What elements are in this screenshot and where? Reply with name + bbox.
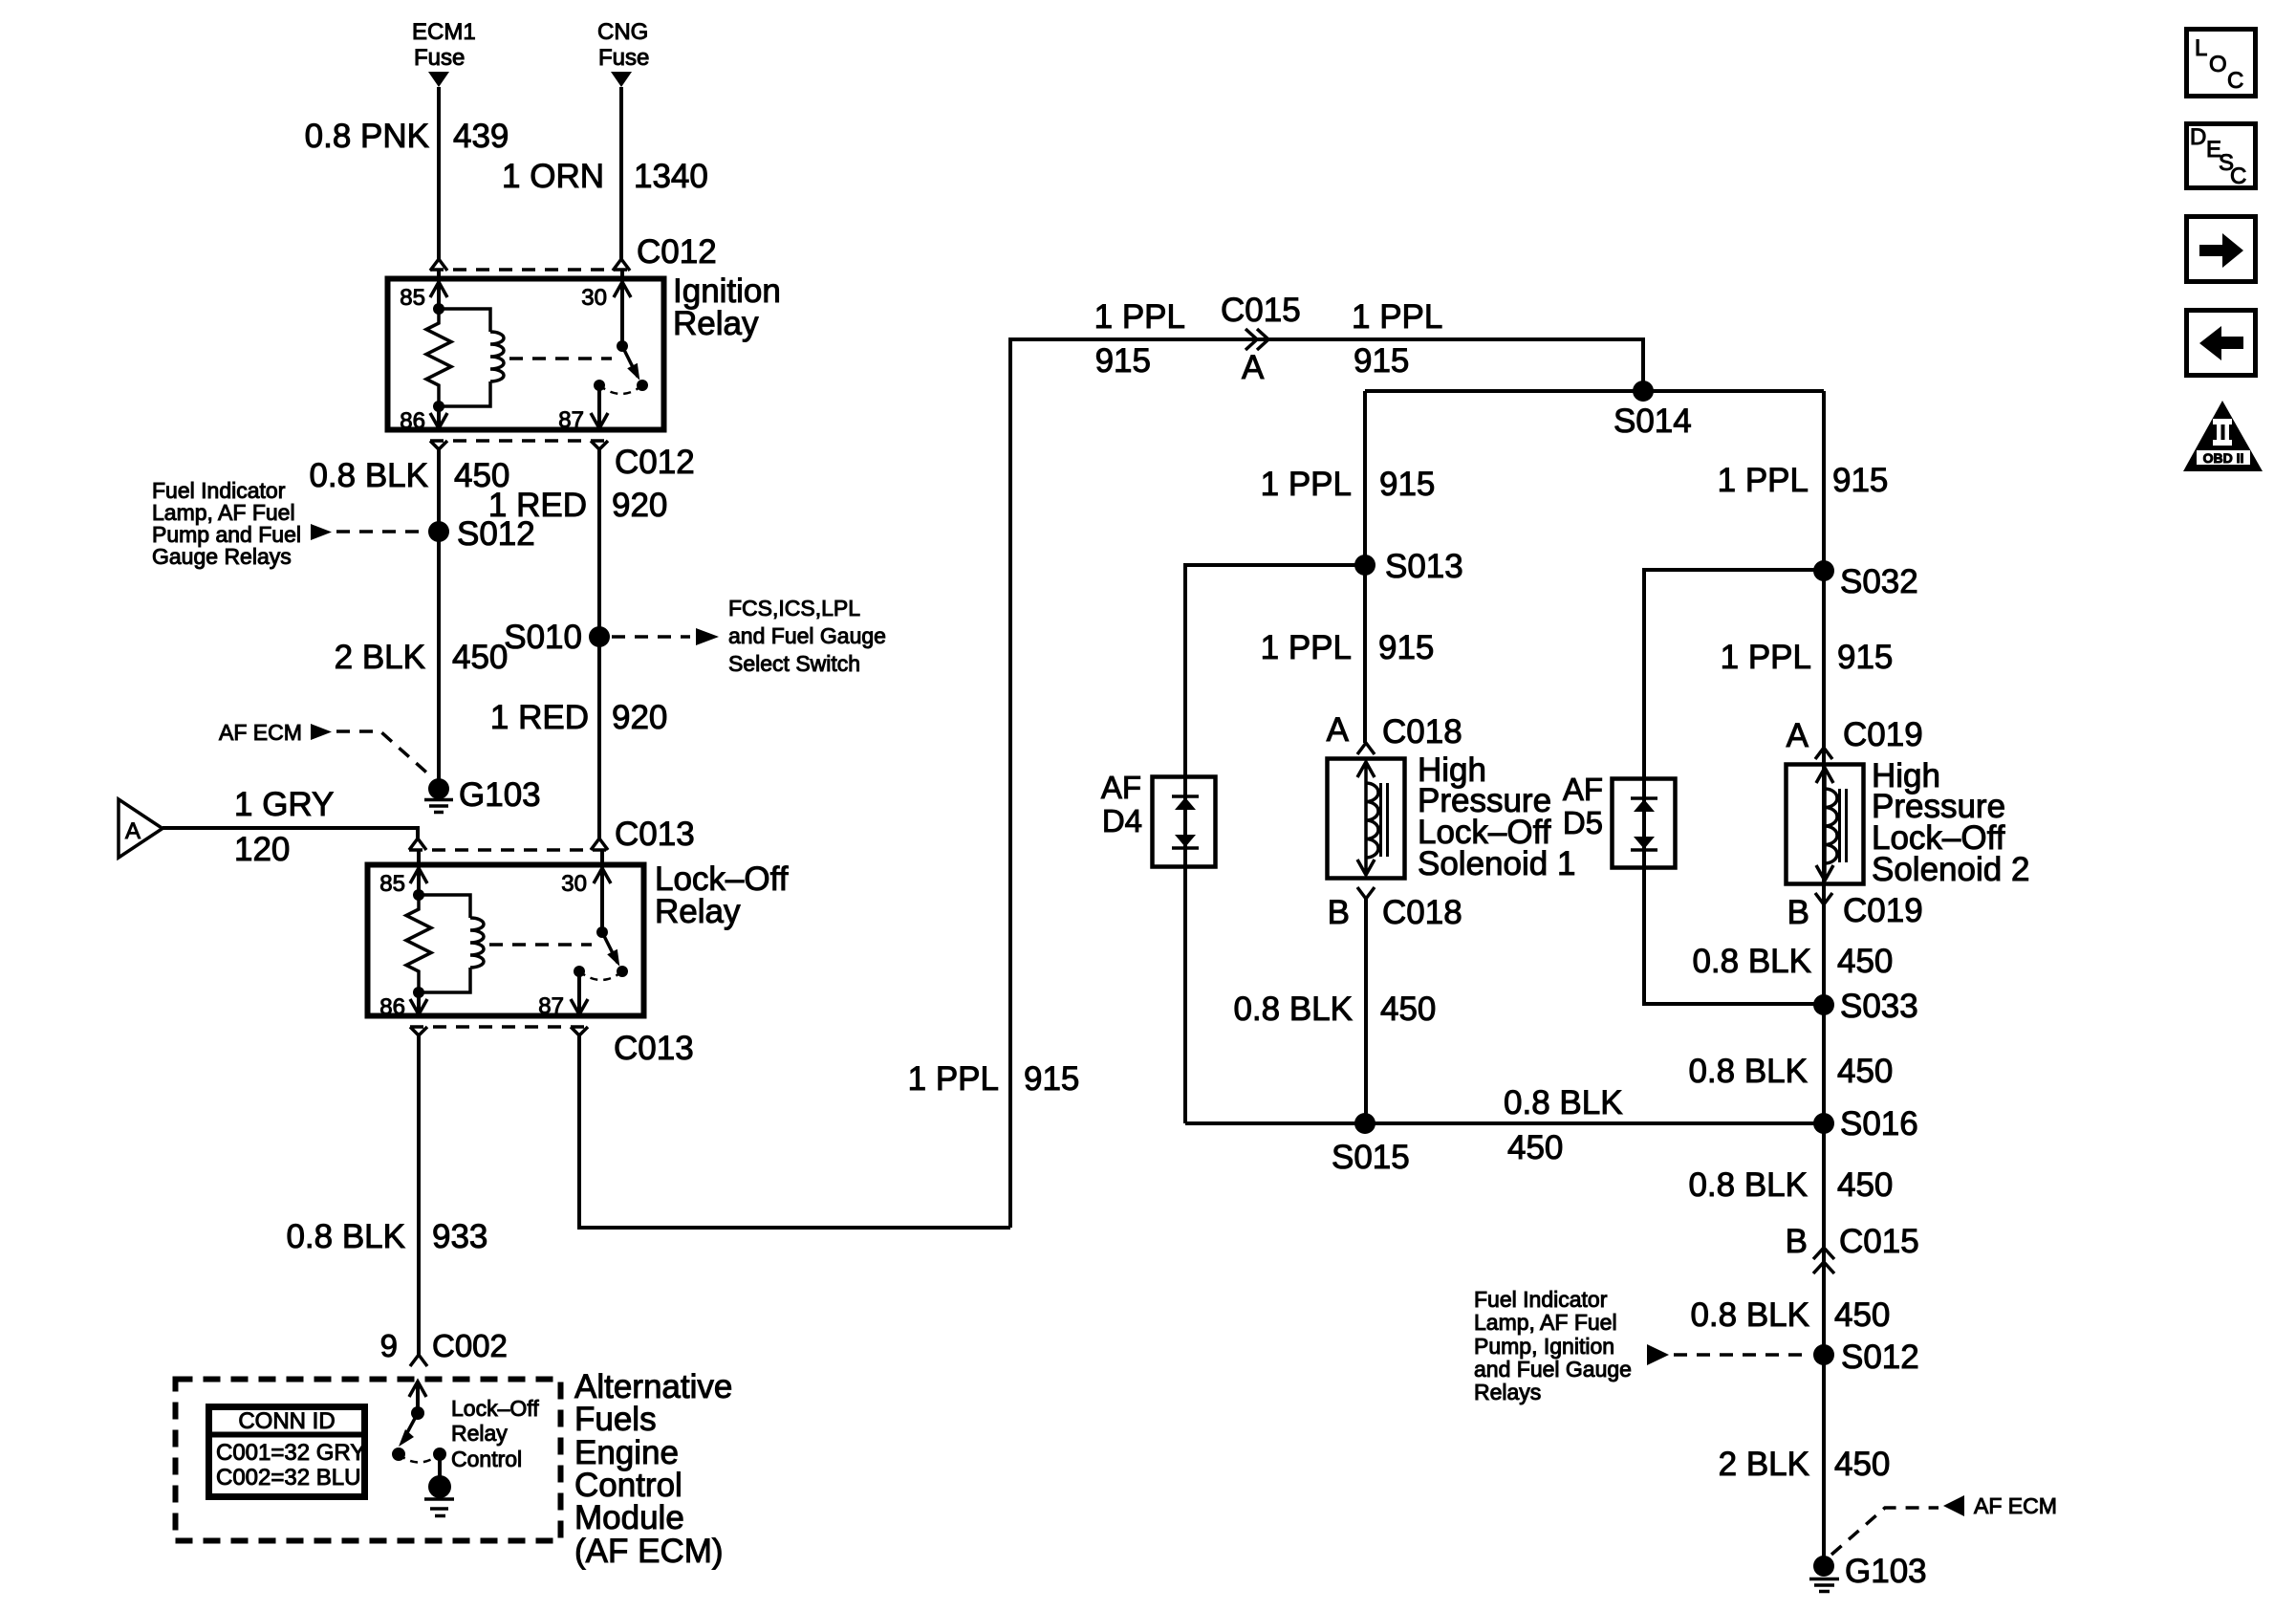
svg-text:Solenoid 2: Solenoid 2	[1872, 851, 2029, 888]
ground G103 right	[1813, 1556, 1834, 1577]
svg-text:915: 915	[1095, 342, 1151, 380]
svg-text:CONN ID: CONN ID	[238, 1408, 335, 1434]
svg-text:1 PPL: 1 PPL	[1352, 298, 1442, 336]
svg-text:AF: AF	[1563, 772, 1603, 807]
connector C015 pin B inline chevrons	[1813, 1248, 1834, 1274]
arrow to S012	[311, 524, 332, 540]
dashed wire G103 to AF ECM	[1831, 1508, 1939, 1555]
solenoid 1 coil	[1366, 783, 1378, 858]
node S012 splice	[428, 521, 449, 542]
switch throw dashed arc	[579, 971, 622, 980]
fuse CNG terminal triangle	[611, 72, 632, 87]
annotation AF ECM (right)	[1943, 1495, 1964, 1516]
svg-text:FCS,ICS,LPL: FCS,ICS,LPL	[728, 596, 860, 620]
wire pin86 to relay bottom with down arrow	[417, 992, 421, 1013]
svg-text:Fuse: Fuse	[414, 45, 465, 71]
coil relay1	[439, 309, 504, 406]
coil relay2	[419, 895, 484, 992]
connector C012 bottom: fork pin86	[430, 441, 447, 449]
svg-text:C019: C019	[1843, 716, 1923, 753]
fuse ECM1 terminal triangle	[428, 72, 449, 87]
connector C019 pin B fork	[1815, 893, 1832, 904]
diode AF D5 box	[1613, 779, 1676, 868]
svg-text:915: 915	[1354, 342, 1409, 380]
svg-text:450: 450	[1834, 1296, 1890, 1334]
svg-text:0.8 BLK: 0.8 BLK	[1690, 1296, 1809, 1334]
svg-text:C015: C015	[1221, 292, 1301, 329]
node contact dot pin87	[594, 380, 605, 391]
switch throw dashed arc	[599, 385, 642, 394]
op: lock-off relay box K2	[368, 865, 644, 1016]
node switch pivot dot	[596, 926, 608, 938]
module AF ECM dashed box	[176, 1380, 561, 1541]
icon forward arrow box	[2187, 217, 2256, 282]
wire branch S013 to diode D4	[1185, 565, 1365, 1123]
wire branch S032 to diode D5 to S033	[1644, 570, 1824, 1004]
svg-text:450: 450	[1837, 1166, 1893, 1204]
dashed wire AF ECM to G103	[336, 731, 432, 777]
svg-text:0.8 BLK: 0.8 BLK	[1688, 1053, 1808, 1090]
svg-text:D5: D5	[1563, 805, 1603, 840]
connector C012 top: fork pin85	[430, 259, 447, 271]
svg-text:0.8 BLK: 0.8 BLK	[1688, 1166, 1808, 1204]
svg-text:C001=32 GRY: C001=32 GRY	[216, 1440, 365, 1466]
icon LOC box	[2187, 30, 2256, 97]
ground internal ECM	[428, 1475, 451, 1498]
arrow to FCS	[696, 628, 719, 645]
svg-text:Solenoid 1: Solenoid 1	[1418, 845, 1575, 882]
connector C013 top: fork pin30	[591, 838, 608, 850]
switch blade relay2	[602, 932, 617, 963]
wire 1 GRY 120	[162, 828, 418, 838]
svg-text:0.8 BLK: 0.8 BLK	[1504, 1084, 1623, 1121]
svg-text:Module: Module	[574, 1499, 684, 1536]
ecm switch up arrow	[416, 1383, 420, 1413]
solenoid 1 box	[1328, 759, 1405, 879]
node ecm contact dot right	[433, 1448, 446, 1461]
diode D5 upper (pointing up)	[1631, 796, 1657, 800]
svg-text:87: 87	[558, 407, 584, 433]
node ecm contact dot left	[392, 1448, 405, 1461]
wire pin87 to relay bottom with down arrow	[577, 971, 581, 1013]
node S015 splice	[1354, 1113, 1375, 1134]
connector C013 bottom: fork pin86	[410, 1027, 427, 1035]
diode D5 lower (pointing down)	[1634, 837, 1655, 849]
svg-text:C019: C019	[1843, 892, 1923, 929]
wire contact to internal ground	[438, 1454, 442, 1477]
node junction dot coil bottom	[433, 401, 444, 412]
wire 0.8 BLK 450 solenoid1 to S015	[1364, 899, 1368, 1123]
solenoid 1 plunger double arrow	[1357, 762, 1375, 875]
svg-text:S013: S013	[1385, 548, 1463, 585]
node S012 splice right	[1813, 1344, 1834, 1365]
svg-text:G103: G103	[459, 776, 541, 814]
icon DESC box	[2187, 124, 2256, 188]
wire 1 PPL 915 down to S013	[1363, 391, 1367, 565]
svg-text:915: 915	[1837, 639, 1893, 676]
svg-text:Lock–Off: Lock–Off	[451, 1396, 539, 1421]
connector C012 bottom dashed line	[430, 439, 609, 443]
wire pin30 into relay with up arrow	[600, 850, 604, 932]
svg-text:0.8 PNK: 0.8 PNK	[305, 118, 429, 155]
node S010 splice	[589, 626, 610, 647]
svg-text:S033: S033	[1840, 988, 1918, 1025]
ground G103 left	[428, 778, 449, 799]
svg-text:0.8 BLK: 0.8 BLK	[1692, 943, 1811, 980]
resistor relay2	[406, 895, 431, 992]
dashed wire to S012 right	[1674, 1353, 1811, 1357]
svg-text:1 GRY: 1 GRY	[234, 786, 334, 823]
wire S015 to S016 ground run	[1185, 1121, 1824, 1125]
connector C013 bottom: fork pin87	[571, 1027, 588, 1035]
svg-text:S016: S016	[1840, 1105, 1918, 1143]
table CONN ID	[209, 1407, 365, 1497]
svg-text:C012: C012	[637, 233, 717, 271]
wire 1 RED 920 upper	[597, 449, 601, 838]
svg-text:Relay: Relay	[655, 893, 741, 930]
resistor relay1	[426, 309, 451, 406]
svg-text:A: A	[1327, 711, 1350, 749]
solenoid 2 plunger double arrow	[1816, 768, 1833, 881]
svg-text:933: 933	[432, 1218, 487, 1255]
svg-text:450: 450	[1837, 943, 1893, 980]
svg-text:C002=32 BLU: C002=32 BLU	[216, 1465, 360, 1491]
wire S014 cross run	[1365, 389, 1824, 393]
icon OBD II triangle	[2183, 401, 2263, 471]
wire pin85 into relay with up arrow	[437, 271, 441, 309]
node S032 splice	[1813, 560, 1834, 581]
svg-text:450: 450	[452, 639, 508, 676]
svg-text:C013: C013	[615, 816, 695, 853]
wire pin30 into relay with up arrow	[620, 271, 624, 346]
svg-text:2 BLK: 2 BLK	[335, 639, 425, 676]
svg-text:ECM1: ECM1	[412, 19, 476, 45]
connector C002: fork pin9	[410, 1355, 427, 1366]
svg-text:1 PPL: 1 PPL	[1721, 639, 1811, 676]
svg-text:915: 915	[1379, 466, 1435, 503]
svg-text:C002: C002	[432, 1328, 508, 1363]
svg-text:120: 120	[234, 831, 290, 868]
switch blade relay1	[622, 346, 638, 377]
svg-text:S010: S010	[504, 619, 582, 656]
node junction dot coil bottom	[413, 987, 424, 998]
connector C012 top: fork pin30	[613, 259, 630, 271]
svg-text:915: 915	[1378, 629, 1434, 666]
wire 1 PPL 915 main right riser	[1822, 391, 1826, 1557]
svg-text:D: D	[2190, 124, 2206, 150]
node junction dot coil top	[433, 303, 444, 315]
svg-text:85: 85	[400, 285, 425, 311]
svg-text:450: 450	[1380, 991, 1436, 1028]
arrow to S012 right	[1647, 1344, 1669, 1365]
svg-text:1 PPL: 1 PPL	[1718, 462, 1809, 499]
node contact dot pin87	[574, 966, 585, 977]
svg-text:Select Switch: Select Switch	[728, 651, 860, 676]
node blade tip dot	[637, 380, 648, 391]
svg-text:C013: C013	[614, 1030, 694, 1067]
relay2 actuate dashed link	[489, 943, 592, 947]
svg-text:C015: C015	[1839, 1223, 1919, 1260]
node S033 splice	[1813, 994, 1834, 1015]
node ecm switch pivot dot	[411, 1406, 424, 1420]
svg-text:C: C	[2227, 68, 2243, 94]
wire 0.8 PNK 439 from ECM1 fuse	[437, 87, 441, 259]
svg-text:30: 30	[561, 871, 587, 897]
connector C012 bottom: fork pin87	[591, 441, 608, 449]
svg-text:C012: C012	[615, 444, 695, 481]
svg-text:450: 450	[1507, 1129, 1563, 1166]
icon back arrow box	[2187, 311, 2256, 376]
svg-text:30: 30	[581, 285, 607, 311]
svg-text:AF ECM: AF ECM	[219, 720, 302, 745]
svg-text:86: 86	[379, 994, 405, 1020]
svg-text:A: A	[1242, 349, 1265, 386]
connector C013 bottom dashed line	[410, 1025, 589, 1029]
svg-text:0.8 BLK: 0.8 BLK	[1233, 991, 1353, 1028]
svg-text:and Fuel Gauge: and Fuel Gauge	[1474, 1357, 1632, 1382]
connector C018 pin B fork	[1357, 887, 1375, 899]
node switch pivot dot	[617, 340, 628, 352]
solenoid 2 core lines	[1840, 789, 1847, 862]
svg-text:CNG: CNG	[597, 19, 648, 45]
svg-text:C018: C018	[1382, 894, 1462, 931]
svg-text:B: B	[1787, 894, 1809, 931]
svg-text:AF ECM: AF ECM	[1974, 1493, 2057, 1518]
svg-text:(AF ECM): (AF ECM)	[574, 1533, 724, 1570]
svg-text:86: 86	[400, 408, 425, 434]
svg-text:B: B	[1328, 894, 1350, 931]
diode D4 upper (pointing up)	[1172, 795, 1199, 798]
svg-text:Gauge Relays: Gauge Relays	[152, 544, 292, 569]
svg-text:450: 450	[1834, 1446, 1890, 1483]
svg-text:S012: S012	[1841, 1339, 1919, 1376]
svg-text:Control: Control	[451, 1447, 522, 1471]
svg-text:S032: S032	[1840, 563, 1918, 600]
wire 0.8 BLK 933	[417, 1035, 421, 1355]
connector C015 pin A inline chevrons	[1245, 329, 1268, 350]
svg-text:915: 915	[1832, 462, 1888, 499]
svg-text:S012: S012	[457, 515, 535, 553]
ecm switch blade with arrow	[404, 1413, 418, 1438]
svg-text:A: A	[125, 818, 141, 844]
svg-text:Fuel Indicator: Fuel Indicator	[1474, 1287, 1608, 1312]
svg-text:439: 439	[453, 118, 509, 155]
svg-text:C: C	[2230, 163, 2246, 189]
svg-text:85: 85	[379, 871, 405, 897]
node S014 splice	[1633, 381, 1654, 402]
svg-text:1 RED: 1 RED	[490, 699, 589, 736]
svg-text:Relay: Relay	[451, 1421, 508, 1446]
op: ignition relay box U1	[388, 279, 664, 430]
wire pin85 into relay with up arrow	[417, 850, 421, 895]
diode D4 lower (pointing down)	[1175, 835, 1196, 847]
svg-text:OBD II: OBD II	[2203, 450, 2244, 466]
svg-text:87: 87	[538, 993, 564, 1019]
wire 1 PPL 915 riser to top run	[1010, 339, 1643, 1228]
svg-text:1340: 1340	[634, 158, 708, 195]
solenoid 2 coil	[1825, 789, 1837, 863]
connector C012 top dashed line	[430, 268, 629, 272]
svg-text:O: O	[2209, 52, 2227, 77]
svg-text:A: A	[1787, 717, 1809, 754]
svg-text:S014: S014	[1614, 403, 1692, 440]
svg-text:L: L	[2195, 35, 2207, 61]
svg-text:Lamp, AF Fuel: Lamp, AF Fuel	[1474, 1310, 1617, 1335]
wire 1 ORN 1340 from CNG fuse	[619, 87, 623, 259]
svg-text:D4: D4	[1102, 803, 1142, 838]
svg-text:S015: S015	[1332, 1139, 1410, 1176]
svg-text:450: 450	[1837, 1053, 1893, 1090]
svg-text:0.8 BLK: 0.8 BLK	[309, 457, 428, 494]
dashed wire from S010	[612, 635, 690, 639]
wire pin86 to relay bottom with down arrow	[437, 406, 441, 427]
relay1 actuate dashed link	[509, 357, 612, 360]
svg-text:0.8 BLK: 0.8 BLK	[286, 1218, 405, 1255]
svg-text:915: 915	[1024, 1060, 1079, 1098]
svg-text:2 BLK: 2 BLK	[1719, 1446, 1809, 1483]
svg-text:1 PPL: 1 PPL	[1094, 298, 1185, 336]
wire 1 PPL 915 S013 to C018 A	[1363, 565, 1367, 743]
svg-text:1 PPL: 1 PPL	[908, 1060, 999, 1098]
svg-text:B: B	[1786, 1223, 1808, 1260]
wire 0.8 BLK 450	[437, 449, 441, 779]
wire pin87 to relay bottom with down arrow	[597, 385, 601, 427]
solenoid 2 box	[1787, 765, 1864, 884]
wire 1 PPL 915 from pin87 down and right to riser	[579, 1035, 1010, 1228]
svg-text:Fuels: Fuels	[574, 1401, 657, 1438]
svg-text:1 PPL: 1 PPL	[1261, 466, 1352, 503]
svg-text:1 ORN: 1 ORN	[502, 158, 604, 195]
svg-text:C018: C018	[1382, 713, 1462, 751]
connector C019 pin A fork	[1815, 748, 1832, 759]
svg-text:1 PPL: 1 PPL	[1261, 629, 1352, 666]
svg-text:AF: AF	[1101, 770, 1141, 805]
connector C013 top: fork pin85	[409, 838, 426, 850]
connector C013 top dashed line	[409, 848, 609, 852]
svg-text:920: 920	[612, 699, 667, 736]
svg-text:920: 920	[612, 487, 667, 524]
dashed wire to S012	[336, 530, 426, 533]
solenoid 1 core lines	[1381, 783, 1388, 857]
connector C018 pin A fork	[1357, 743, 1375, 754]
svg-text:Pump, Ignition: Pump, Ignition	[1474, 1334, 1614, 1359]
svg-text:9: 9	[380, 1328, 398, 1363]
diode AF D4 box	[1153, 777, 1216, 867]
arrow AF ECM	[311, 724, 332, 740]
node triangle A off-page	[119, 799, 162, 858]
svg-text:Relays: Relays	[1474, 1380, 1541, 1404]
node blade tip dot	[617, 966, 628, 977]
svg-text:Fuse: Fuse	[598, 45, 649, 71]
node junction dot coil top	[413, 889, 424, 901]
ecm switch dashed arc	[399, 1454, 440, 1463]
svg-text:G103: G103	[1845, 1553, 1927, 1590]
svg-text:Relay: Relay	[673, 305, 759, 342]
node S013 splice	[1354, 555, 1375, 576]
svg-text:and Fuel Gauge: and Fuel Gauge	[728, 623, 886, 648]
node S016 splice	[1813, 1113, 1834, 1134]
